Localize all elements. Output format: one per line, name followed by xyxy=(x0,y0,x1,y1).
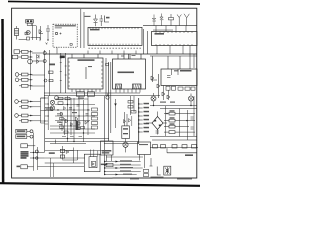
crossed component Q101 xyxy=(26,31,30,35)
boxed label L504 xyxy=(106,163,113,166)
bridge rectifier VD604 diamond xyxy=(152,117,163,130)
wire y166.4 left of shield xyxy=(38,165,85,167)
horizontal wire y104.5 xyxy=(55,104,95,106)
resistor R408 xyxy=(81,127,85,129)
small part between D and E xyxy=(106,64,109,66)
resistor R403 xyxy=(58,102,63,105)
resistor R402 xyxy=(65,97,70,100)
wires into shield top xyxy=(91,150,98,157)
wire rows right links xyxy=(32,102,41,121)
connector circle P3 xyxy=(35,150,38,153)
core symbol under T101 xyxy=(27,23,31,25)
label in box G line2 xyxy=(102,152,110,153)
label smudge R612 xyxy=(170,117,175,118)
horizontal wire y120.5 xyxy=(55,120,90,122)
arrow on bundle a xyxy=(116,161,119,163)
capacitor C410 circle xyxy=(44,79,47,82)
label smudge center b xyxy=(72,112,77,113)
connector circle P1 xyxy=(43,52,46,55)
hatched box inside IC501 right xyxy=(133,84,142,89)
node dot R323 xyxy=(30,115,31,116)
wire R321 leads xyxy=(18,101,32,103)
label box S301 xyxy=(21,144,28,148)
bundle text smudge a xyxy=(120,160,132,161)
resistor R321 xyxy=(22,100,29,103)
node dot R321 xyxy=(30,101,31,102)
label DP301 text xyxy=(17,166,21,168)
wire Q101 down a xyxy=(31,23,33,40)
label box column c xyxy=(92,117,98,120)
arrow on bundle c xyxy=(116,174,119,176)
resistor R314 xyxy=(22,78,29,81)
wire VR501 top leads xyxy=(125,112,128,152)
diode VD201 above IC201 xyxy=(94,19,98,23)
vertical wire x74 xyxy=(73,98,75,142)
wire R614 row xyxy=(164,131,195,133)
label VR501 line2 xyxy=(123,133,128,134)
capacitor C103 xyxy=(46,25,50,40)
pin ticks IC401 right edge xyxy=(101,62,103,86)
wire R323 leads xyxy=(18,115,32,117)
internal part row IC601 a xyxy=(166,86,170,90)
vertical wire x187.5 right xyxy=(187,110,189,140)
capacitor C312 xyxy=(15,78,19,82)
resistor R313 xyxy=(22,73,29,76)
wire bottom row b xyxy=(30,157,45,159)
diode VD504 above VR501 xyxy=(124,120,126,124)
vertical wire x62 xyxy=(61,112,63,131)
pin ticks IC201 bottom edge xyxy=(90,44,138,46)
resistor R502 xyxy=(128,101,133,104)
diode VD502 on wire xyxy=(151,76,157,80)
junction box small xyxy=(27,37,30,40)
lamp HL602 xyxy=(189,96,194,101)
horizontal wire y105.5 xyxy=(150,105,197,107)
node dots lamp wire xyxy=(153,105,192,106)
wire x40.5 vertical xyxy=(40,26,42,40)
vertical wire x50.5 to frame xyxy=(50,158,52,177)
node dot R311 xyxy=(30,51,31,52)
wire above IC301 y25.5 xyxy=(143,25,197,27)
small box right of bundle b xyxy=(144,174,149,177)
hatch lines IC501 right box xyxy=(133,84,141,88)
node dot bottom b xyxy=(33,157,34,158)
wire y160 link xyxy=(62,159,77,161)
wire C501 lead xyxy=(107,94,109,96)
horizontal wire y99 xyxy=(55,98,88,100)
capacitor C201 above IC201 xyxy=(100,15,104,26)
misc marks center cluster xyxy=(57,105,89,137)
IC box U101 (top left block) xyxy=(53,24,77,47)
vertical wire x53.5 to frame xyxy=(53,163,55,177)
label CQ540 text xyxy=(49,152,55,153)
optocoupler box inside shield xyxy=(92,161,96,166)
stub element x151 xyxy=(150,158,153,166)
diode VD503 on wire xyxy=(157,84,160,88)
capacitor C540 block xyxy=(60,149,64,152)
label in box I xyxy=(139,144,148,145)
resistor R411 xyxy=(49,80,53,82)
page top scan edge xyxy=(8,1,200,4)
wire y143.5 bottom left xyxy=(50,143,86,145)
wire y150.6 extension xyxy=(45,150,105,152)
wire R612 row xyxy=(164,120,195,122)
internal part row IC601 e xyxy=(191,87,195,90)
connector circle RP302 xyxy=(30,135,33,138)
capacitor C611 xyxy=(156,131,160,133)
caption bottom center text xyxy=(101,178,113,179)
wire bottom row a xyxy=(30,152,45,154)
resistor R503 xyxy=(128,106,133,109)
vertical wire right of IC401 xyxy=(105,58,107,96)
transistor Q402 xyxy=(50,100,54,104)
Q402 cross xyxy=(51,101,54,104)
tick stubs IC301 top to wire xyxy=(156,26,186,32)
component on ladder top xyxy=(60,56,65,59)
transistor Q403 xyxy=(50,106,54,110)
diode VD303 xyxy=(37,55,40,59)
vertical stub x167 xyxy=(166,148,168,153)
chain component box c xyxy=(172,145,177,148)
resistor R406 xyxy=(64,131,68,133)
capacitor C405 xyxy=(77,128,81,130)
capacitor C613 right col xyxy=(191,127,194,129)
wire between U101 and IC201 a xyxy=(80,9,82,48)
bus label smudges xyxy=(144,103,150,133)
text block TB301 line3 xyxy=(21,155,29,156)
schematic border frame xyxy=(12,8,197,178)
long vertical wire x104.4 xyxy=(103,96,105,175)
label TA text right of optocoupler xyxy=(101,164,108,166)
text block TB301 line1 xyxy=(21,151,29,152)
fuse label above IC201 xyxy=(85,16,91,17)
wire R322 leads xyxy=(19,106,33,108)
node dots mid-left xyxy=(44,97,49,121)
label box column e xyxy=(92,126,98,129)
capacitor C501 top xyxy=(106,96,109,99)
vertical wire x115.5 xyxy=(115,99,117,128)
resistor R312 xyxy=(22,56,29,59)
ladder rail ticks xyxy=(60,58,67,81)
node dot R612 xyxy=(186,120,187,121)
wire R301 stubs xyxy=(170,14,172,26)
resistor R504 xyxy=(131,111,136,114)
wire x36.4 vertical xyxy=(35,26,37,40)
connector icon box with star xyxy=(164,166,171,175)
caption bottom right text xyxy=(177,178,192,179)
resistor R407 xyxy=(76,122,80,124)
box G output block xyxy=(101,141,114,155)
vertical wire x37.5 bottom xyxy=(37,147,39,170)
connector icon inner circle xyxy=(166,169,168,171)
pin stubs IC501 bottom xyxy=(116,89,140,93)
label box D301 xyxy=(14,50,20,54)
secondary bus wire y56 xyxy=(150,55,197,57)
node dots center cluster xyxy=(57,104,88,142)
label box DP301 xyxy=(21,165,28,169)
vertical wire x48.2 mid xyxy=(47,96,49,130)
Q101 cross xyxy=(27,31,30,34)
node dot R324 xyxy=(30,120,31,121)
wire y152.8 bottom right xyxy=(167,152,197,154)
bundle text smudge b xyxy=(120,164,131,165)
capacitor C542 block xyxy=(60,155,64,158)
wire VD201 stub xyxy=(95,15,97,27)
pin ticks IC301 top edge xyxy=(156,32,192,34)
capacitor C321 xyxy=(15,100,19,104)
antenna symbol W302 xyxy=(177,15,181,26)
label row above IC301 xyxy=(153,29,173,32)
label box D302 xyxy=(12,55,17,59)
horizontal wire y140 xyxy=(152,139,197,141)
vertical wire x71 xyxy=(70,98,72,135)
node dot R314 xyxy=(30,79,31,80)
arrow on bundle b xyxy=(116,167,119,169)
resistor R101 ladder xyxy=(15,29,19,36)
wire row to connector b xyxy=(32,60,43,62)
diode VD304 xyxy=(37,60,40,64)
wire y163 xyxy=(45,162,85,164)
IC box IC601 (right block) xyxy=(161,69,197,86)
diode VD101 xyxy=(39,30,43,34)
bus wire under IC401 y93 xyxy=(44,92,140,94)
bundle wire y161.5 xyxy=(105,161,141,163)
label RP301 xyxy=(17,130,26,132)
vertical wire x30.7 xyxy=(30,50,32,90)
pin ticks IC401 left edge xyxy=(68,62,70,86)
label smudge 220V xyxy=(49,64,55,66)
chain component box a xyxy=(153,145,158,148)
internal part row IC601 c xyxy=(178,87,183,90)
resistor R322 xyxy=(22,105,29,108)
tick mark lambda xyxy=(46,43,48,45)
wire R613 row xyxy=(164,126,189,128)
wire R312 leads xyxy=(18,56,33,58)
vertical wire x130.5 xyxy=(130,96,132,115)
capacitor C322 xyxy=(15,114,19,118)
resistor R612 xyxy=(169,119,175,122)
IC box IC401 TDA4605 (center left block) xyxy=(68,58,103,89)
horizontal wire y116 xyxy=(55,115,95,117)
label RP302 xyxy=(17,136,26,138)
lamp HL602 cross xyxy=(189,97,192,100)
wire IC201 right down a xyxy=(143,29,145,54)
bridge diode tick a xyxy=(154,119,156,122)
link wires mid-left xyxy=(41,98,49,124)
transformer T101 label box xyxy=(26,20,34,24)
wire rows to bus x44 a xyxy=(32,74,45,76)
wire R314 leads xyxy=(19,79,33,81)
internal part row IC601 d xyxy=(185,87,190,90)
bus node dots xyxy=(138,103,139,132)
vertical wire x77.6 bottom xyxy=(77,150,79,160)
resistor R401 xyxy=(58,97,63,100)
wire S301 lead xyxy=(27,145,35,147)
label box column a xyxy=(92,108,98,111)
diode VD302 above IC301 xyxy=(160,14,164,26)
resistor R405 xyxy=(60,126,64,128)
pin circle on U101 left xyxy=(55,32,57,34)
wire R313 leads xyxy=(19,74,33,76)
internal part row IC601 b xyxy=(172,86,176,90)
hatched box inside IC501 left xyxy=(116,84,122,89)
label above lamp wire a xyxy=(160,102,166,103)
label smudge R613 xyxy=(170,123,175,124)
resistor R311 xyxy=(22,50,29,53)
wire RP302 lead xyxy=(27,136,30,138)
IC box IC201 (top middle block) xyxy=(88,27,142,45)
node dots R611 xyxy=(166,113,167,114)
vertical wire x165.5 right xyxy=(165,106,167,136)
internal divider IC401 xyxy=(85,67,87,79)
main bus x138.7 xyxy=(138,98,140,144)
star inside connector icon xyxy=(165,167,170,174)
diode marks center cluster xyxy=(63,107,87,126)
pin ticks IC301 bottom edge xyxy=(156,44,192,46)
vertical wire x67.5 xyxy=(67,96,69,142)
vertical ladder wire xb xyxy=(65,53,67,93)
internal wire IC601 xyxy=(167,69,178,78)
wire x40.5 to bus xyxy=(41,98,45,123)
wire box I to bundle xyxy=(140,155,145,169)
node dot R322 xyxy=(30,106,31,107)
small box left of Q101 xyxy=(25,32,27,35)
vertical wire x79 xyxy=(78,96,80,130)
pin wires IC501 top xyxy=(124,54,141,59)
horizontal wire y136.5 xyxy=(150,136,197,138)
regulator box VR501 xyxy=(122,126,130,139)
horizontal wire y141.5 xyxy=(45,141,139,143)
wire lamp leads xyxy=(154,93,192,106)
vertical wire x73.4 bottom xyxy=(72,148,74,164)
vertical wire x194 right xyxy=(193,96,195,136)
potentiometer RP302 xyxy=(16,135,27,139)
label smudge center c xyxy=(57,122,61,123)
transistor Q302 xyxy=(28,59,33,64)
resistor R613 xyxy=(169,125,175,128)
diode VD401 xyxy=(61,112,64,116)
Q403 cross xyxy=(51,107,54,110)
resistor R315 xyxy=(22,84,29,87)
stub wires bus to IC501 top xyxy=(118,54,130,59)
boxed label mid-left xyxy=(45,108,53,111)
vertical wire x134 xyxy=(133,96,135,112)
caption bottom mid text xyxy=(130,178,139,179)
resistor R611 xyxy=(169,112,175,115)
node dot R312 xyxy=(30,56,31,57)
horizontal wire y108.5 xyxy=(160,108,197,110)
horizontal wire y143.5 xyxy=(104,143,138,145)
wire drop x55.5 to y143.5 xyxy=(55,140,57,144)
wire y25.5 cluster xyxy=(31,25,36,27)
hatch lines IC501 left box xyxy=(116,84,122,88)
small square U101 bottom right xyxy=(70,44,72,46)
shield box inner xyxy=(89,157,97,168)
resistor R301 above IC301 xyxy=(169,18,174,20)
diode VD301 above IC301 xyxy=(152,15,156,26)
plus mark inside U101 xyxy=(60,33,62,35)
label smudge center a xyxy=(78,98,84,99)
pin number row under IC201 xyxy=(89,47,142,49)
wire row to connector a xyxy=(32,52,43,54)
potentiometer RP301 xyxy=(16,129,27,133)
bridge leads xyxy=(146,112,167,135)
wire y39.5 short xyxy=(19,39,27,41)
bundle wire y168 xyxy=(105,167,143,169)
label box column d xyxy=(92,122,98,125)
bus wire y95.5 xyxy=(44,95,160,97)
wire between U101 and IC201 b xyxy=(83,12,85,48)
capacitor C311 xyxy=(15,73,19,77)
capacitor C612 right col xyxy=(191,117,194,119)
label IC301 xyxy=(155,33,165,35)
label IC601 left xyxy=(174,70,179,71)
vertical wire x179.5 right xyxy=(179,109,181,137)
label L201 xyxy=(106,17,110,19)
connector icon half left xyxy=(157,167,161,176)
wire R324 leads xyxy=(19,120,33,122)
horizontal wire y126 xyxy=(50,125,80,127)
bracket wire xyxy=(31,37,41,41)
wire right frame x194 xyxy=(193,54,195,68)
label IC501 xyxy=(118,72,135,74)
wire right of IC501 b xyxy=(158,74,160,98)
resistor R404 xyxy=(60,118,64,120)
box I output block xyxy=(138,142,151,155)
vertical connector bus x44.7 xyxy=(44,50,46,152)
boxed label mid-left text xyxy=(46,108,52,109)
T101 label blobs xyxy=(27,20,29,22)
wire RP301 lead xyxy=(27,130,30,132)
lamp HL601 cross xyxy=(152,97,155,100)
component chain bottom right wire xyxy=(150,147,198,149)
connector circle P4 xyxy=(36,157,38,159)
bundle wire y174.5 xyxy=(105,174,137,176)
diode inside optocoupler xyxy=(92,163,94,166)
diode VD402 xyxy=(66,119,69,123)
bundle text smudge d xyxy=(120,170,131,171)
motor M501 cross xyxy=(124,143,128,147)
diode VD403 xyxy=(76,117,79,121)
chain component box d xyxy=(182,145,187,148)
horizontal wire y133 xyxy=(50,132,95,134)
wire C540 chain vertical xyxy=(61,146,63,160)
horizontal wire y129 xyxy=(50,128,95,130)
sub box X401 below IC401 xyxy=(77,92,85,96)
stub wires bus to IC601 top xyxy=(168,46,190,70)
vertical ladder wire xa xyxy=(60,53,62,93)
stub wires bus to IC401 top xyxy=(72,54,98,58)
wire R101 lead xyxy=(16,26,18,40)
sub box X402 below IC401 xyxy=(88,92,95,96)
antenna symbol W301 xyxy=(184,14,189,26)
caption under connector icons xyxy=(151,177,164,178)
label under wire y152.8 xyxy=(185,154,193,156)
small box right of bundle a xyxy=(144,169,149,172)
wire rows to bus x44 b xyxy=(32,85,45,87)
vertical wire x88 xyxy=(87,96,89,135)
resistor R324 xyxy=(22,119,29,122)
page bottom scan edge xyxy=(0,183,200,186)
wire bundle dots x104.7 xyxy=(104,161,105,175)
text block TB301 line2 xyxy=(21,153,29,154)
label smudge R611 xyxy=(170,110,175,111)
wire y158 extension xyxy=(45,157,85,159)
vertical wire pair center a xyxy=(108,62,110,141)
wire R311 leads xyxy=(20,51,33,53)
label IC401 xyxy=(78,59,95,61)
resistor R410 xyxy=(49,71,54,74)
